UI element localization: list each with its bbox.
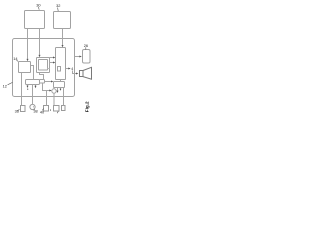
- svg-text:32: 32: [56, 3, 60, 8]
- svg-text:Fig.2: Fig.2: [84, 101, 89, 112]
- svg-text:38: 38: [33, 108, 37, 113]
- svg-text:36: 36: [15, 109, 19, 114]
- svg-text:4: 4: [71, 67, 73, 71]
- svg-text:12: 12: [3, 84, 7, 89]
- svg-text:26: 26: [84, 43, 88, 48]
